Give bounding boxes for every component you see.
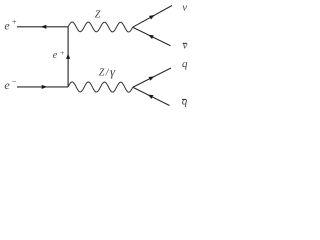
quark line	[133, 68, 171, 87]
overline of q-bar	[182, 98, 186, 100]
svg-text:Z: Z	[95, 10, 101, 21]
arrow on internal line (pointing up)	[66, 54, 70, 59]
antineutrino line	[133, 27, 171, 46]
svg-text:ν: ν	[183, 40, 188, 52]
overline of nu-bar	[183, 42, 187, 44]
svg-text:q: q	[182, 58, 188, 70]
svg-text:e: e	[4, 18, 10, 32]
arrow on antiquark line (toward vertex)	[148, 95, 154, 99]
svg-text:q: q	[182, 96, 188, 108]
photon Z/gamma wavy line (bottom)	[68, 82, 133, 92]
arrow on antineutrino line (toward vertex)	[148, 35, 154, 39]
positron external line e+	[17, 26, 68, 28]
svg-text:γ: γ	[110, 65, 116, 79]
arrow on e+ line (pointing left)	[41, 25, 46, 29]
arrow on quark line (outgoing)	[149, 76, 155, 80]
svg-text:ν: ν	[182, 2, 187, 14]
electron external line e-	[17, 86, 68, 88]
svg-text:+: +	[11, 17, 17, 27]
arrow on neutrino line (outgoing)	[149, 15, 155, 19]
svg-text:e: e	[4, 78, 10, 92]
svg-text:−: −	[11, 76, 17, 86]
photon Z wavy line (top)	[68, 22, 133, 32]
svg-text:Z: Z	[99, 68, 105, 79]
antiquark line	[133, 87, 170, 105]
svg-text:e: e	[53, 50, 58, 61]
svg-text:+: +	[60, 48, 65, 57]
internal positron propagator (vertical)	[67, 27, 69, 87]
arrow on e- line (pointing right)	[42, 85, 47, 89]
neutrino line	[133, 6, 172, 28]
